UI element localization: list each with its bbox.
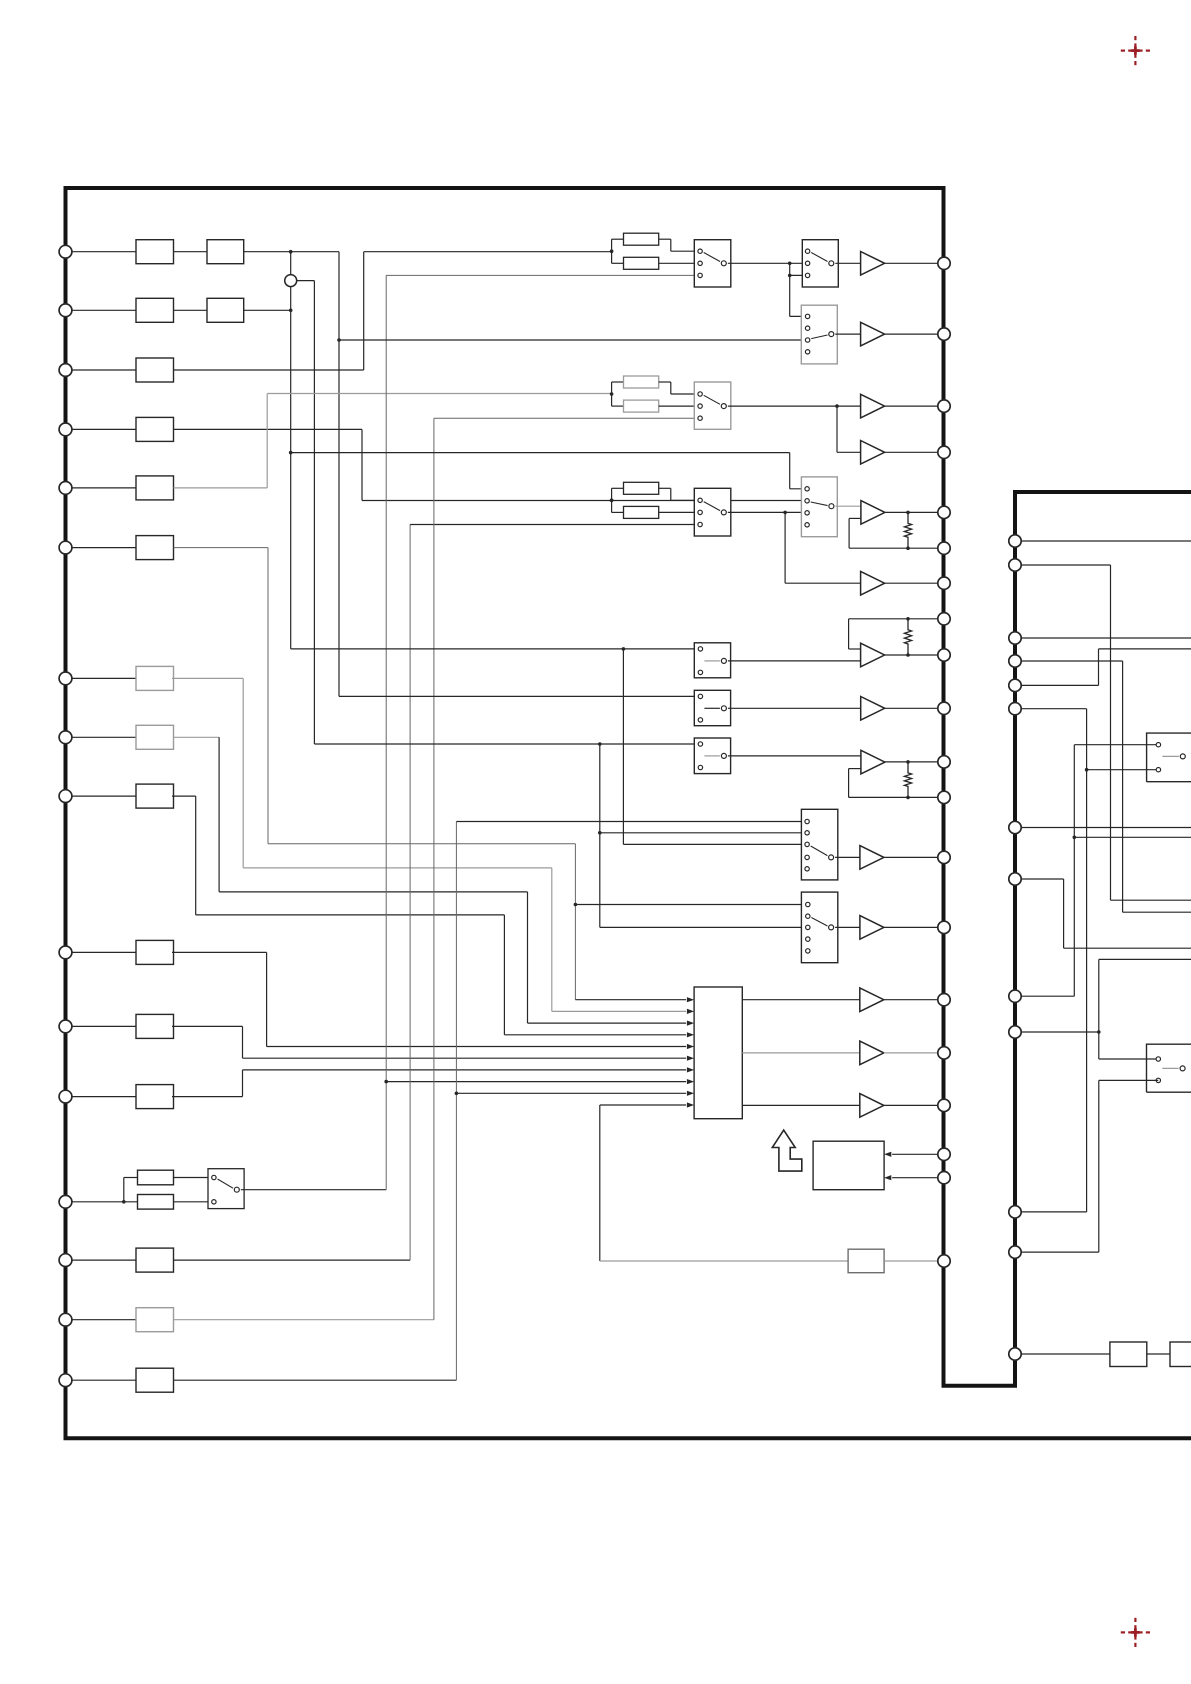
switch SWR2 pin1 [1156, 1057, 1160, 1061]
connector TP20 [938, 1255, 950, 1267]
registration mark bottom [1121, 1618, 1150, 1647]
block F3 [136, 358, 174, 382]
wire RJ11 exit [1099, 958, 1191, 960]
wire RJ5 exit [1099, 648, 1191, 650]
wire row14 out [174, 1259, 411, 1261]
wire row11 out [172, 1025, 243, 1027]
wire A1 fb stub [849, 517, 861, 519]
junction A1 fb top [906, 511, 910, 515]
switch SW4 pin1 [698, 392, 702, 396]
junction V3 sw3pin3 [337, 338, 341, 342]
junction A1 fb bot [906, 546, 910, 550]
wire tap452 drop [789, 453, 791, 489]
block RB2 [1170, 1342, 1191, 1367]
wire V2 vertical [313, 281, 315, 744]
wire J11 to block [72, 1025, 136, 1027]
wire row1 out [244, 251, 339, 253]
wire V4 to res row1 [364, 251, 612, 253]
arrow mux in6 [687, 1056, 694, 1061]
switch SW6 pin4 [805, 523, 809, 527]
switch SW4 lever [704, 395, 720, 404]
arrow mux in1 [687, 997, 694, 1002]
wire row9 vertical [195, 796, 197, 915]
wire R13a to SW13 [174, 1177, 214, 1179]
wire V7 to SW4 pin3 [434, 417, 700, 419]
switch SWC pole [721, 753, 726, 758]
buffer U11 [860, 1094, 884, 1118]
wire row16 out [174, 1379, 457, 1381]
switch SWB pole [721, 706, 726, 711]
wire drop623 [622, 649, 624, 845]
wire RJ4 line [1021, 660, 1122, 662]
wire R1 bar-bot [612, 262, 624, 264]
junction U4 tap [835, 404, 839, 408]
junction R3 in [610, 499, 614, 503]
arrow mux in7 [687, 1067, 694, 1072]
wire J7 to block [72, 677, 136, 679]
switch SW5 pin2 [698, 510, 702, 514]
junction SW6 pin3 in [783, 511, 787, 515]
wire U1 to TP1 [885, 262, 938, 264]
junction node row13 [122, 1200, 126, 1204]
wire mux in3 [528, 1022, 687, 1024]
buffer U6 [861, 697, 885, 721]
switch SW13 pin2 [212, 1200, 216, 1204]
wire J10 to block [72, 951, 136, 953]
wire V8 to SW5 pin3 [410, 524, 700, 526]
wire row15 out [174, 1319, 434, 1321]
switch SWR2 pin2 [1156, 1078, 1160, 1082]
input connector J12 [59, 1090, 72, 1103]
switch SW8 pin3 [806, 925, 810, 929]
wire row9 horizontal [196, 914, 505, 916]
wire to SW7 pin3 [623, 843, 807, 845]
switch SW6 pole [829, 504, 834, 509]
arrow mux in3 [687, 1021, 694, 1026]
wire row8 horizontal [219, 891, 527, 893]
switch SW2 pin2 [805, 261, 809, 265]
switch SWR2 pole [1180, 1066, 1185, 1071]
wire R3b to pin2 [659, 511, 700, 513]
wire row7 vertical [242, 678, 244, 868]
wire J9 to block [72, 795, 136, 797]
switch SW7 lever [811, 846, 828, 856]
block F1 [136, 240, 174, 264]
switch SW6 lever [811, 502, 828, 506]
switch SWB pin1 [698, 694, 702, 698]
wire J15 to block [72, 1319, 136, 1321]
wire A3 fb rise [848, 769, 850, 798]
wire row6 vertical [267, 548, 269, 844]
wire V3 vertical [338, 252, 340, 697]
connector TP4 [938, 446, 950, 458]
wire IC1 out3 [742, 1104, 860, 1106]
wire J5 to block [72, 487, 136, 489]
wire U5 to TP7 [885, 582, 938, 584]
control block IC2 [813, 1141, 884, 1190]
input connector J1 [59, 245, 72, 258]
wire RJ5 rise [1098, 649, 1100, 686]
wire mux in6 [243, 1057, 687, 1059]
switch SW4 pole [721, 404, 726, 409]
wire A3 out [885, 761, 938, 763]
wire RJ10 line [1021, 1211, 1086, 1213]
connector TP15 [938, 994, 950, 1006]
switch SW3 pole [829, 332, 834, 337]
wire row5 out [174, 487, 268, 489]
switch SWR1 body [1147, 733, 1191, 782]
arrow mux in5 [687, 1044, 694, 1049]
wire Vg1 vertical [266, 394, 268, 488]
wire U9 to TP15 [884, 999, 938, 1001]
resistor R2a [624, 376, 659, 388]
wire RJ2 drop [1110, 565, 1112, 900]
connector TP10 [938, 702, 950, 714]
wire row10 out [172, 951, 267, 953]
wire SW8 to U8 [835, 926, 860, 928]
resistor R1b [624, 257, 659, 269]
switch SW2 pole [829, 261, 834, 266]
junction A3 out [906, 760, 910, 764]
connector TP17 [938, 1099, 950, 1111]
wire mux in2 [552, 1010, 686, 1012]
wire V2 to SWC pin1 [314, 743, 700, 745]
input connector J3 [59, 364, 72, 377]
switch SWA body [694, 643, 730, 678]
wire V7 vertical [433, 418, 435, 1319]
wire R2 bar-bot [612, 405, 624, 407]
switch SWR1 pole [1180, 754, 1185, 759]
wire drop837 [836, 406, 838, 452]
switch SW5 lever [704, 502, 720, 511]
connector TP6 [938, 542, 950, 554]
junction row6 sw8pin1 [574, 903, 578, 907]
wire RJ2 exit [1111, 899, 1191, 901]
wire A1 fb bottom [849, 547, 938, 549]
junction V1 row2 [289, 309, 293, 313]
block F2 [136, 298, 174, 322]
wire V3 to SWB pin1 [339, 695, 700, 697]
resistor R1a [624, 233, 659, 245]
wire V9 to SW7 pin1 [456, 821, 807, 823]
switch SWA lever [704, 660, 720, 662]
wire mux in7 [243, 1069, 687, 1071]
wire SWR1 pin1 feed [1074, 744, 1158, 746]
block F7 [136, 666, 174, 690]
switch SW8 pin4 [806, 937, 810, 941]
wire to U5 [785, 582, 861, 584]
wire mux in9 [456, 1092, 686, 1094]
wire U6 to TP10 [885, 707, 938, 709]
wire RJ11 rise [1098, 959, 1100, 1032]
switch SW3 lever [811, 335, 827, 339]
wire RJ8 line [1021, 878, 1063, 880]
wire V6 to SW1 pin3 [386, 274, 700, 276]
block F15 [136, 1308, 174, 1332]
junction A2 fb [906, 617, 910, 621]
wire R2a jog [659, 381, 671, 383]
connector RJ8 [1009, 873, 1021, 885]
wire row4 out [174, 428, 363, 430]
block F5 [136, 476, 174, 500]
connector TP3 [938, 400, 950, 412]
junction res R3 [610, 499, 614, 503]
wire RJ12 riser [1098, 1080, 1100, 1252]
input connector J14 [59, 1254, 72, 1267]
input connector J7 [59, 672, 72, 685]
switch SW8 pole [829, 925, 834, 930]
wire RJ12 line [1021, 1251, 1099, 1253]
arrow mux in2 [687, 1009, 694, 1014]
amplifier A3 [861, 750, 885, 774]
connector TP7 [938, 577, 950, 589]
switch SW3 pin2 [805, 326, 809, 330]
wire P1 stub to V2 [297, 280, 315, 282]
switch SW4 body [694, 382, 731, 429]
wire SWB to U6 [728, 707, 861, 709]
wire Vg1 to res row2 [267, 393, 611, 395]
wire A2 fb drop [848, 619, 850, 649]
wire R1a drop [670, 239, 672, 251]
wire in10 riser [599, 1105, 601, 1261]
wire row8 vertical [218, 737, 220, 892]
wire mux in4 [504, 1034, 686, 1036]
wire J4 to block [72, 428, 136, 430]
junction SWA line [622, 647, 626, 651]
connector RJ9 [1009, 990, 1021, 1002]
selector block IC1 [694, 987, 742, 1119]
arrow into IC2 b [884, 1175, 891, 1180]
input connector J13 [59, 1195, 72, 1208]
junction SWC line [598, 742, 602, 746]
connector TP1 [938, 257, 950, 269]
wire TP18 to IC2 [892, 1153, 938, 1155]
wire RJ2 line [1021, 564, 1110, 566]
input connector J5 [59, 482, 72, 495]
junction V9 mux [455, 1092, 459, 1096]
connector RJ7 [1009, 821, 1021, 833]
input connector J16 [59, 1374, 72, 1387]
switch SW13 body [208, 1169, 244, 1209]
wire mux in5 [267, 1046, 686, 1048]
junction SW7 pin2 tap [598, 831, 602, 835]
buffer U5 [861, 571, 885, 595]
block F6 [136, 536, 174, 560]
block EXT1 [848, 1249, 884, 1273]
connector RJ6 [1009, 703, 1021, 715]
switch SW8 body [801, 892, 837, 963]
wire RJ9 line [1021, 995, 1074, 997]
buffer U8 [860, 916, 884, 940]
wire J8 to block [72, 736, 136, 738]
switch SW5 pin1 [698, 498, 702, 502]
connector TP9 [938, 649, 950, 661]
junction res R2 [610, 392, 614, 396]
switch SW4 pin3 [698, 416, 702, 420]
wire U11 to TP17 [884, 1104, 938, 1106]
switch SW7 pole [829, 855, 834, 860]
switch SW7 pin4 [805, 855, 809, 859]
switch SWA pin2 [698, 670, 702, 674]
block F12 [136, 1085, 174, 1109]
wire R1a jog [659, 238, 671, 240]
connector RJ4 [1009, 655, 1021, 667]
wire SW13 output [241, 1189, 386, 1191]
resistor R3b [624, 506, 659, 518]
wire RJ11 drop [1098, 1032, 1100, 1059]
switch SW3 pin1 [805, 314, 809, 318]
wire EXT1 to TP20 [884, 1260, 938, 1262]
switch SWB body [694, 690, 730, 725]
wire row7 out [172, 677, 243, 679]
wire to SWR2 pin1 [1099, 1058, 1159, 1060]
block F16 [136, 1368, 174, 1392]
switch SWR1 pin1 [1156, 743, 1160, 747]
wire J13 [72, 1201, 138, 1203]
switch SW2 body [802, 240, 838, 287]
switch SW5 pole [721, 510, 726, 515]
switch SW2 lever [811, 253, 827, 262]
bracket wire row13 [123, 1178, 125, 1202]
switch SW2 pin3 [805, 273, 809, 277]
connector RJ11 [1009, 1026, 1021, 1038]
wire J14 to block [72, 1259, 136, 1261]
res bar R1 [611, 239, 613, 263]
wire R2b to pin2 [659, 405, 700, 407]
wire A1 fb rise [848, 518, 850, 548]
wire V5 vertical [361, 429, 363, 500]
wire row8 drop [527, 892, 529, 1023]
wire A3 fb stub [849, 768, 861, 770]
block G2 [207, 298, 244, 322]
wire SW3 to U2 [835, 333, 860, 335]
connector TP16 [938, 1047, 950, 1059]
wire R1a to pin1 [671, 250, 700, 252]
switch SWB pin2 [698, 718, 702, 722]
switch SW6 pin3 [805, 511, 809, 515]
wire R1 bar-top [612, 238, 624, 240]
connector TP18 [938, 1148, 950, 1160]
junction RJ11 [1097, 1030, 1101, 1034]
switch SW8 lever [811, 918, 827, 927]
wire J16 to block [72, 1379, 136, 1381]
switch SW7 pin1 [805, 819, 809, 823]
block F4 [136, 417, 174, 441]
wire row7 drop [551, 868, 553, 1012]
wire U7 to TP13 [884, 856, 938, 858]
wire IC1 out1 [742, 999, 860, 1001]
input connector J4 [59, 423, 72, 436]
switch SW8 pin1 [806, 902, 810, 906]
wire SWA to A2 [728, 660, 861, 662]
arrow into IC2 a [884, 1152, 891, 1157]
switch SW6 pin2 [805, 499, 809, 503]
switch SWR1 lever [1162, 755, 1178, 757]
buffer U1 [861, 252, 885, 276]
wire mux in1 [575, 999, 686, 1001]
amplifier A2 [861, 643, 885, 667]
connector TP19 [938, 1172, 950, 1184]
switch SW2 pin1 [805, 249, 809, 253]
block F8 [136, 725, 174, 749]
switch SW4 pin2 [698, 404, 702, 408]
wire R3a jog [659, 487, 671, 489]
wire row11 vertical [242, 1026, 244, 1058]
switch SW3 pin3 [805, 338, 809, 342]
input connector J6 [59, 541, 72, 554]
junction A2 out [906, 653, 910, 657]
resistor R3a [624, 482, 659, 494]
wire RJ6 line [1021, 708, 1086, 710]
switch SWA pin1 [698, 647, 702, 651]
wire drop789 to SW3 [789, 263, 791, 316]
wire to SW8 pin3 [600, 926, 808, 928]
wire R2a drop [670, 382, 672, 394]
resistor RF3 [904, 762, 911, 798]
switch SWB lever [704, 707, 720, 709]
wire row6 horizontal [268, 843, 575, 845]
wire U4 to TP4 [885, 451, 938, 453]
switch SW1 pin3 [698, 273, 702, 277]
connector RJ10 [1009, 1206, 1021, 1218]
wire row10 vertical [266, 952, 268, 1046]
wire drop599 [599, 744, 601, 927]
wire A2 fb top [849, 618, 938, 620]
wire A1 out [885, 511, 938, 513]
block RB1 [1110, 1342, 1147, 1367]
wire drop785 [784, 512, 786, 583]
block F14 [136, 1248, 174, 1272]
switch SW8 pin5 [806, 949, 810, 953]
wire RJ3 line [1021, 637, 1191, 639]
switch SW1 pin1 [698, 249, 702, 253]
wire RJ8 drop [1063, 879, 1065, 948]
wire tap837 exit [1074, 836, 1191, 838]
wire row8 out [174, 736, 220, 738]
wire RJ5 line [1021, 684, 1098, 686]
buffer U7 [860, 846, 884, 870]
wire SW2 pin3 tap [790, 274, 808, 276]
switch SWR1 pin2 [1156, 768, 1160, 772]
wire V8 vertical [409, 525, 411, 1261]
main enclosure outline [66, 188, 1191, 1438]
wire U2 to TP2 [885, 333, 938, 335]
wire mux in8 [386, 1081, 686, 1083]
wire V6 vertical [385, 275, 387, 1189]
connector RJ5 [1009, 679, 1021, 691]
wire R2a to pin1 [671, 393, 700, 395]
wire R3 bar-bot [612, 511, 624, 513]
junction RJ6 tap [1085, 768, 1089, 772]
switch SW5 body [694, 488, 731, 536]
junction res R1 [610, 249, 614, 253]
wire SWR2 pin2 feed [1099, 1079, 1159, 1081]
wire TP19 to IC2 [892, 1177, 938, 1179]
wire to U4 [837, 451, 861, 453]
wire to SW6 pin1 [790, 488, 807, 490]
buffer U4 [861, 441, 885, 465]
wire mux in10 [600, 1104, 686, 1106]
connector TP13 [938, 851, 950, 863]
wire RJ4 exit [1123, 911, 1191, 913]
block arrow symbol [772, 1130, 802, 1171]
wire RJ7 line [1021, 827, 1191, 829]
wire J12 to block [72, 1096, 136, 1098]
wire R13b to SW13 [174, 1201, 214, 1203]
switch SW7 pin2 [805, 831, 809, 835]
wire V5 to res row3 and SW6 [362, 500, 807, 502]
switch SWA pole [721, 658, 726, 663]
